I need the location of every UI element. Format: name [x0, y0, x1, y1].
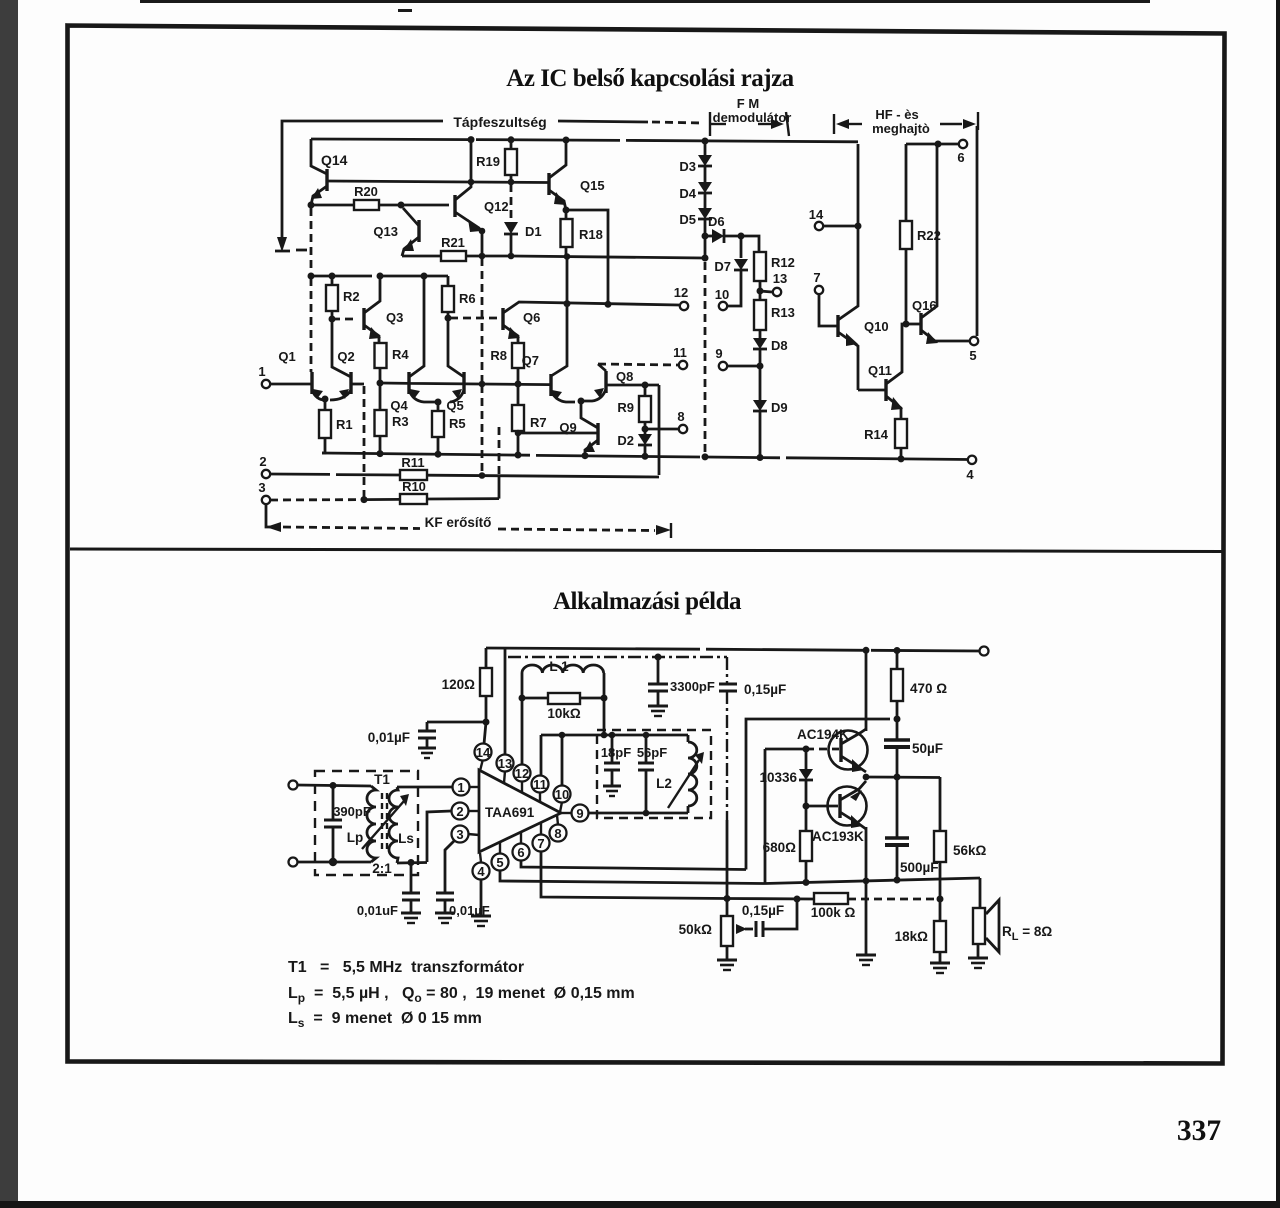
resistor R11 row	[270, 474, 400, 475]
svg-text:0,01µF: 0,01µF	[368, 730, 410, 745]
T1 transformer dashed box	[315, 771, 418, 875]
wire Ls bottom junction	[408, 859, 415, 866]
node R6 bottom	[445, 315, 452, 322]
small mark above frame	[398, 9, 412, 12]
node row 304 pin12 column	[605, 301, 612, 308]
second rail row	[311, 275, 448, 278]
svg-text:1: 1	[457, 780, 464, 795]
resistor R22	[905, 144, 908, 221]
wire center emitter rail to ground	[865, 881, 868, 955]
resistor R6	[447, 276, 450, 286]
svg-text:R14: R14	[864, 427, 889, 442]
shared emitter bowl Q4 Q5	[409, 390, 464, 402]
terminal 11 wire to Q8 top	[598, 364, 606, 371]
wire bus to terminal 6	[906, 143, 959, 146]
left scanner bar	[0, 0, 18, 1201]
svg-text:demodulátor: demodulátor	[713, 110, 792, 125]
svg-text:Q8: Q8	[616, 369, 633, 384]
svg-text:L 1: L 1	[549, 659, 569, 674]
svg-text:Q15: Q15	[580, 178, 605, 193]
diode D1	[510, 184, 513, 221]
svg-text:2:1: 2:1	[372, 861, 392, 876]
svg-text:8: 8	[554, 826, 561, 841]
svg-text:50kΩ: 50kΩ	[679, 922, 713, 937]
wire R10 feedback column dashed	[498, 476, 501, 499]
transistor Q5	[462, 372, 465, 394]
L2 dashed box	[597, 730, 711, 818]
transformer tuning arrow	[362, 801, 404, 849]
resistor R2	[331, 276, 334, 285]
ground under 50k	[717, 959, 737, 962]
node R12 bottom	[757, 288, 764, 295]
capacitor 0,01uF at pin 3	[436, 892, 454, 895]
transistor Q9	[581, 401, 598, 428]
input terminal lower	[289, 858, 298, 867]
svg-text:R8: R8	[490, 348, 507, 363]
svg-text:R9: R9	[617, 400, 634, 415]
top page edge line	[140, 0, 1150, 3]
svg-text:D7: D7	[714, 259, 731, 274]
pin 6 stem	[520, 832, 522, 844]
pin 12 stem	[521, 781, 523, 792]
node rail R19	[468, 136, 475, 143]
svg-text:500µF: 500µF	[900, 860, 939, 875]
terminal 10	[719, 302, 727, 310]
svg-text:Alkalmazási példa: Alkalmazási példa	[553, 588, 742, 615]
TAA691 triangle	[479, 770, 561, 852]
pin 2	[452, 803, 469, 820]
node R8 bottom	[515, 381, 522, 388]
node row256 right end	[702, 255, 709, 262]
transistor Q6	[501, 308, 504, 330]
wire row 877 emitter rail	[765, 878, 980, 884]
pin 8	[550, 825, 567, 842]
svg-text:13: 13	[498, 756, 512, 771]
resistor R10 row	[270, 498, 364, 501]
terminal 9	[727, 365, 760, 368]
pin 7 stem	[540, 823, 542, 835]
secondary coil Ls	[389, 787, 398, 863]
node R2 bottom	[329, 316, 336, 323]
svg-text:337: 337	[1177, 1115, 1222, 1147]
svg-text:Q1: Q1	[278, 349, 295, 364]
svg-text:R11: R11	[401, 455, 424, 470]
svg-text:R3: R3	[392, 414, 409, 429]
KF erosito dimension	[266, 504, 276, 527]
node D5 bottom	[702, 233, 709, 240]
node 470 bottom row719	[894, 716, 901, 723]
pin 11 stem	[539, 792, 541, 802]
diode D8	[753, 338, 767, 349]
resistor 680 ohm	[805, 806, 808, 831]
capacitor 500uF electrolytic	[885, 836, 909, 840]
node 120ohm bottom	[483, 719, 490, 726]
terminal 4	[968, 456, 976, 464]
node R20 right	[398, 202, 405, 209]
transistor Q4	[407, 372, 410, 394]
ground under pin3 cap	[435, 912, 455, 915]
pin 7	[533, 835, 550, 852]
svg-text:D3: D3	[679, 159, 696, 174]
wire row2 up to base rail	[764, 749, 767, 884]
svg-text:Q4: Q4	[390, 398, 408, 413]
terminal 14	[815, 222, 823, 230]
pin 9	[572, 805, 589, 822]
diode D2	[638, 434, 652, 445]
svg-text:2: 2	[259, 454, 266, 469]
pin 1 stem	[469, 786, 479, 788]
svg-text:0,15µF: 0,15µF	[744, 682, 786, 697]
wire Q8 collector row to R9	[607, 384, 659, 387]
capacitor 3300pF	[655, 654, 662, 661]
node Q14 emitter / R20 row	[308, 202, 315, 209]
pin 9 stem	[561, 812, 572, 814]
resistor 470 ohm	[896, 651, 899, 669]
wire emitter AC193K down	[865, 827, 868, 878]
svg-text:Q10: Q10	[864, 319, 889, 334]
pin 12	[514, 765, 531, 782]
node rail D3 column	[702, 138, 709, 145]
svg-text:470 Ω: 470 Ω	[910, 681, 947, 696]
terminal 5	[970, 337, 978, 345]
node D6 right	[738, 233, 745, 240]
ground under 18pF	[603, 785, 621, 788]
transistor Q14	[311, 139, 327, 174]
wire Ls top to pin 1	[397, 786, 452, 789]
wire pin 6 to row1	[521, 861, 746, 870]
bottom page edge	[0, 1201, 1280, 1208]
node row 304 R18 column crossing	[564, 300, 571, 307]
potentiometer 50k	[726, 898, 729, 916]
terminal 6	[959, 140, 967, 148]
svg-text:D9: D9	[771, 400, 788, 415]
pin 11	[532, 776, 549, 793]
wire D column dashed to bottom rail	[704, 262, 707, 458]
L2 tuning arrow	[668, 760, 699, 808]
wire pin 11 up	[540, 735, 543, 776]
svg-text:3: 3	[456, 827, 463, 842]
transistor Q2	[349, 372, 352, 394]
ground under 3300pF	[648, 705, 668, 708]
svg-text:0,15µF: 0,15µF	[742, 903, 784, 918]
wire R9 top feedback corner	[658, 385, 661, 475]
svg-text:Q11: Q11	[868, 363, 892, 378]
svg-text:18pF: 18pF	[601, 745, 631, 760]
svg-text:14: 14	[476, 745, 491, 760]
resistor R1	[324, 399, 327, 410]
ground under pin 4	[471, 915, 491, 918]
capacitor 0,15uF series lower	[755, 921, 758, 937]
resistor 56k	[939, 777, 942, 831]
svg-text:9: 9	[715, 346, 722, 361]
wire Q12 emitter column	[479, 228, 486, 235]
ground under 18k	[930, 962, 950, 965]
resistor 100k	[814, 893, 848, 904]
wire row 777	[866, 776, 940, 779]
wire Q9 base	[518, 432, 598, 435]
wire row1 up to 470 ohm node	[746, 719, 890, 870]
svg-text:680Ω: 680Ω	[763, 840, 797, 855]
wire R6 to Q6 base dashed	[450, 317, 497, 320]
input terminal upper	[289, 781, 298, 790]
svg-text:390pF: 390pF	[333, 804, 371, 819]
pin 6	[513, 844, 530, 861]
diode D7	[740, 236, 743, 258]
resistor R13	[759, 291, 762, 300]
pin 4	[473, 863, 490, 880]
svg-text:R7: R7	[530, 415, 547, 430]
svg-text:R12: R12	[771, 255, 795, 270]
svg-text:F M: F M	[737, 96, 759, 111]
transistor Q3	[362, 308, 365, 330]
wire R2 bottom to Q3 base dashed	[332, 318, 358, 321]
wire Q14 base to row	[327, 181, 470, 182]
svg-text:10336: 10336	[759, 770, 797, 785]
transistor Q8	[604, 371, 607, 393]
wire L1 right column down	[601, 695, 608, 702]
wire dashed Q14 emitter down to lower rail	[310, 208, 313, 274]
resistor 18k	[939, 899, 942, 921]
Tapfeszultseg dimension line with down arrow	[282, 121, 443, 243]
pin 5	[492, 854, 509, 871]
wire pin 5 to row2	[500, 870, 765, 884]
svg-text:4: 4	[966, 467, 974, 482]
FM demodulator dimension ticks	[709, 112, 711, 136]
svg-text:0,01uF: 0,01uF	[357, 903, 398, 918]
svg-text:D4: D4	[679, 186, 696, 201]
transistor Q16	[906, 323, 921, 326]
svg-text:D6: D6	[708, 214, 725, 229]
inductor L1	[522, 665, 604, 673]
svg-text:T1: T1	[374, 772, 390, 787]
pin 3	[452, 826, 469, 843]
svg-text:Q12: Q12	[484, 199, 509, 214]
wire pin 10 up	[561, 735, 564, 786]
internal top wire of L2 box	[541, 734, 688, 737]
top supply rail	[311, 139, 858, 142]
svg-text:Q13: Q13	[373, 224, 398, 239]
terminal 1	[262, 380, 270, 388]
diode D5	[704, 193, 707, 208]
capacitor 56pF	[645, 735, 648, 763]
wire pin 7 to row3	[541, 852, 727, 899]
capacitor 390pF	[330, 782, 337, 789]
pin 5 stem	[499, 842, 501, 853]
transistor Q15	[547, 173, 550, 195]
horizontal divider between schematics	[70, 549, 1222, 552]
svg-text:D8: D8	[771, 338, 788, 353]
svg-text:10kΩ: 10kΩ	[547, 706, 581, 721]
diode 10336	[805, 749, 808, 769]
svg-text:TAA691: TAA691	[485, 805, 535, 820]
svg-text:Q14: Q14	[321, 152, 348, 168]
shared emitter bowl Q1 Q2	[312, 390, 351, 400]
wire pin 2 to transformer bottom	[427, 811, 451, 862]
HF-es meghajto dimension ticks	[833, 114, 835, 134]
ground under speaker	[968, 957, 988, 960]
resistor R18	[565, 210, 568, 219]
wire Q2 base dashed down	[351, 383, 364, 386]
svg-text:R21: R21	[441, 235, 465, 250]
wire pin 4 down to ground	[480, 880, 483, 916]
svg-text:11: 11	[533, 777, 547, 792]
wire pin 3 down	[445, 840, 455, 893]
svg-text:50µF: 50µF	[912, 741, 943, 756]
svg-text:R10: R10	[402, 479, 426, 494]
svg-text:Q2: Q2	[337, 349, 354, 364]
svg-text:D2: D2	[617, 433, 634, 448]
svg-text:D5: D5	[679, 212, 696, 227]
svg-text:8: 8	[677, 409, 684, 424]
svg-text:R19: R19	[476, 154, 500, 169]
pin 10	[554, 786, 571, 803]
capacitor 50uF electrolytic	[884, 738, 910, 742]
svg-text:100k Ω: 100k Ω	[811, 905, 856, 920]
wire row3 100k section	[727, 897, 814, 900]
svg-text:R20: R20	[354, 184, 378, 199]
svg-text:2: 2	[456, 804, 463, 819]
terminal 11	[679, 361, 687, 369]
pin 3 stem	[468, 834, 479, 835]
svg-text:R6: R6	[459, 291, 476, 306]
svg-text:T1 = 5,5 MHz transzformát: T1 = 5,5 MHz transzformátor	[288, 959, 524, 976]
dash-dot box around L1 section	[508, 656, 727, 658]
ground under transformer cap	[401, 912, 421, 915]
wire collector column AC194K	[865, 651, 868, 731]
svg-text:14: 14	[809, 207, 824, 222]
wire right vertical to terminal 5	[976, 126, 979, 336]
svg-text:Q3: Q3	[386, 310, 403, 325]
transistor AC194K	[829, 731, 868, 770]
terminal 8	[645, 428, 678, 431]
svg-text:12: 12	[674, 285, 688, 300]
resistor R21	[402, 255, 441, 258]
speaker	[973, 908, 985, 944]
resistor R5	[437, 402, 440, 411]
right page edge	[1276, 0, 1280, 1208]
svg-text:Lp: Lp	[347, 830, 364, 845]
resistor R4	[375, 343, 387, 368]
resistor R7	[512, 405, 524, 431]
capacitor 0,15uF series upper	[719, 683, 737, 686]
svg-text:R13: R13	[771, 305, 795, 320]
svg-text:D1: D1	[525, 224, 542, 239]
wire speaker drop	[979, 878, 982, 908]
resistor R12	[754, 252, 766, 281]
terminal 7	[815, 286, 823, 294]
transformer core	[381, 793, 383, 852]
svg-text:Az IC belső kapcsolási rajza: Az IC belső kapcsolási rajza	[506, 65, 794, 92]
pin 13	[497, 755, 514, 772]
pin 2 stem	[468, 810, 479, 812]
transistor Q10	[836, 315, 839, 337]
primary coil Lp	[367, 786, 376, 862]
svg-text:13: 13	[773, 271, 787, 286]
resistor R9	[642, 382, 649, 389]
transistor Q7	[549, 374, 552, 396]
terminal 13	[760, 291, 772, 292]
base rail to AC194K	[765, 748, 803, 751]
terminal 3	[262, 496, 270, 504]
transistor AC193K	[828, 787, 867, 826]
wire pin13 column to rail	[504, 648, 507, 755]
wire R18 column down to Q7	[551, 256, 567, 376]
pin 4 stem	[480, 853, 481, 862]
bottom rail	[322, 453, 969, 460]
wire Q2 collector	[332, 319, 351, 377]
pin 8 stem	[557, 815, 558, 825]
svg-text:10: 10	[555, 787, 569, 802]
pin 1	[453, 779, 470, 796]
svg-text:R4: R4	[392, 347, 409, 362]
ground under emitter rail	[856, 954, 876, 957]
svg-text:7: 7	[813, 270, 820, 285]
svg-text:6: 6	[957, 150, 964, 165]
node R9 bottom	[642, 426, 649, 433]
transistor Q1	[310, 278, 313, 372]
resistor 10k	[522, 673, 548, 698]
wire base row 384	[380, 383, 550, 385]
wire base AC193K	[806, 805, 838, 808]
svg-text:HF - ès: HF - ès	[875, 107, 918, 122]
svg-text:Tápfeszultség: Tápfeszultség	[453, 114, 546, 130]
transistor Q13	[417, 220, 420, 242]
svg-text:6: 6	[517, 845, 524, 860]
ground under 0,01uF upper	[418, 747, 436, 750]
terminal 12	[680, 302, 688, 310]
svg-text:KF erősítő: KF erősítő	[425, 515, 492, 530]
svg-text:11: 11	[673, 345, 687, 360]
node AC193K base	[803, 803, 810, 810]
outer frame border	[68, 26, 1225, 1064]
shared emitter bowl Q7 Q8	[551, 389, 606, 402]
resistor 120 ohm	[485, 648, 488, 668]
svg-text:AC193K: AC193K	[812, 829, 864, 844]
svg-text:1: 1	[258, 364, 265, 379]
svg-text:10: 10	[715, 287, 729, 302]
svg-text:R2: R2	[343, 289, 360, 304]
resistor R20	[311, 204, 354, 207]
svg-text:5: 5	[969, 348, 976, 363]
svg-text:Ls: Ls	[398, 831, 414, 846]
supply terminal circle	[980, 647, 989, 656]
capacitor 0,01uF under transformer	[410, 863, 413, 893]
svg-text:120Ω: 120Ω	[442, 677, 476, 692]
node rail Q15	[563, 137, 570, 144]
svg-text:Q16: Q16	[912, 298, 937, 313]
pin 13 stem	[504, 771, 505, 783]
svg-text:Q6: Q6	[523, 310, 540, 325]
diode chain D3	[704, 141, 707, 155]
resistor R14	[895, 419, 907, 448]
terminal 2	[262, 470, 270, 478]
svg-text:R1: R1	[336, 417, 353, 432]
node R4 bottom	[377, 380, 384, 387]
pin 14 stem	[480, 759, 483, 771]
transistor Q11	[858, 389, 886, 392]
capacitor 0,01uF upper	[427, 721, 486, 724]
node terminal 9 junction	[757, 363, 764, 370]
svg-text:18kΩ: 18kΩ	[895, 929, 929, 944]
svg-text:7: 7	[537, 836, 544, 851]
svg-text:R18: R18	[579, 227, 603, 242]
svg-text:56pF: 56pF	[637, 745, 667, 760]
svg-text:AC194K: AC194K	[797, 727, 849, 742]
node R22 bottom / Q16 base	[903, 321, 910, 328]
svg-text:5: 5	[496, 855, 503, 870]
resistor R19	[510, 139, 513, 149]
svg-text:56kΩ: 56kΩ	[953, 843, 987, 858]
